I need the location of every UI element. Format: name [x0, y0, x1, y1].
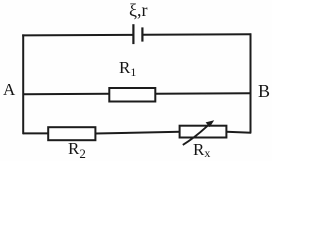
wire: top side, left segment from top-left corner to battery [22, 34, 133, 37]
wire: top side, right segment from battery to top-right corner [143, 33, 252, 36]
rheostat Rx value label [193, 140, 210, 161]
wire: middle branch from node A to resistor R1 [23, 93, 110, 95]
wire: rheostat Rx to bottom-right corner [226, 132, 251, 133]
resistor R1 value label [119, 58, 136, 80]
rheostat Rx arrow shaft [183, 122, 212, 145]
resistor R2 value label [68, 139, 86, 162]
wire: bottom-left corner to resistor R2 [23, 132, 49, 134]
battery cell left (long) plate [132, 24, 134, 44]
wire: resistor R2 to rheostat Rx [95, 132, 180, 134]
node B label [258, 81, 270, 102]
wire: right vertical side [250, 33, 252, 132]
resistor R2 body [48, 127, 95, 140]
rheostat Rx body [180, 126, 227, 138]
wire: resistor R1 to node B [155, 92, 250, 95]
rheostat Rx arrowhead [206, 120, 215, 127]
label ξ,r (emf and internal resistance of the cell) [129, 0, 148, 21]
battery cell right (short) plate [141, 27, 143, 41]
node A label [3, 80, 15, 100]
wire: left vertical side [22, 34, 24, 134]
resistor R1 body [109, 88, 155, 102]
